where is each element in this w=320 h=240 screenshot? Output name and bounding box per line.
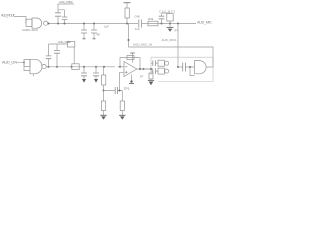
wire	[14, 17, 26, 24]
node	[189, 66, 191, 68]
connector J1 pin box	[26, 19, 32, 26]
stub end	[93, 38, 96, 40]
mic series cap wire	[178, 66, 195, 68]
node on bias wire	[128, 39, 130, 41]
series cap plates	[115, 87, 117, 94]
rail to ground	[150, 79, 152, 80]
connector J2 tip circle	[42, 64, 46, 68]
value label	[135, 15, 141, 19]
node	[57, 23, 59, 25]
connector J2 body	[30, 59, 42, 74]
node	[83, 23, 85, 25]
wire	[118, 66, 124, 68]
capacitor C45 plates	[81, 30, 87, 33]
svg-text:R?: R?	[140, 75, 144, 79]
capacitor C50 plates	[159, 16, 165, 19]
node	[23, 61, 25, 63]
node	[71, 66, 73, 68]
mic gate body	[195, 61, 207, 74]
resistor R57	[121, 91, 123, 102]
node	[139, 68, 141, 70]
op-amp input marks	[125, 67, 127, 74]
capacitor C46	[93, 24, 95, 39]
node	[103, 90, 105, 92]
connector J1 body	[32, 18, 42, 28]
node	[143, 68, 145, 70]
net label	[59, 0, 73, 4]
top rail	[162, 12, 171, 15]
feedback resistor box	[127, 56, 134, 60]
node	[130, 80, 132, 82]
node	[161, 23, 163, 25]
ground	[103, 111, 105, 116]
node	[64, 23, 66, 25]
node	[119, 66, 121, 68]
mic cap plates	[183, 63, 186, 72]
capacitor C45	[83, 24, 85, 39]
svg-text:AUD_LIN: AUD_LIN	[2, 59, 17, 64]
wire stub	[58, 10, 65, 24]
wire row1 right	[160, 23, 196, 25]
label MIC_BIAS	[162, 38, 177, 42]
opamp plus input stub	[120, 72, 125, 90]
net label AUD_RIN	[2, 59, 17, 64]
capacitor C50	[161, 13, 163, 24]
value label	[175, 29, 179, 33]
node	[177, 23, 179, 25]
branch up row2	[49, 44, 68, 67]
connector J2 pin box	[24, 60, 30, 67]
capacitor C44 plates	[55, 13, 61, 16]
resistor R55	[103, 67, 105, 75]
resistor R56	[103, 91, 105, 102]
stub	[32, 74, 34, 77]
wire bias horizontal	[129, 24, 214, 58]
net label AUD_MIC	[197, 20, 212, 24]
jack row A wire	[151, 62, 158, 64]
resistor R55 box	[102, 75, 106, 85]
TP label	[124, 87, 130, 91]
wire	[169, 21, 171, 24]
cap plates	[93, 73, 99, 76]
wire	[73, 47, 75, 64]
node	[119, 90, 121, 92]
value label	[22, 28, 38, 32]
wire mic branch vertical	[177, 24, 179, 68]
jack row B circle	[165, 69, 169, 73]
wire	[17, 62, 24, 66]
node	[83, 66, 85, 68]
value label	[148, 17, 154, 21]
svg-text:AUD_MIC: AUD_MIC	[197, 20, 212, 24]
bottom wire	[104, 90, 123, 92]
opamp power up	[132, 53, 134, 62]
node	[93, 23, 95, 25]
svg-text:AUD_VREF: AUD_VREF	[59, 0, 73, 4]
node	[48, 23, 50, 25]
svg-text:C48: C48	[135, 15, 141, 19]
svg-text:AUD_ROUT: AUD_ROUT	[1, 14, 16, 18]
node	[169, 23, 171, 25]
resistor R49 box (series)	[148, 21, 158, 26]
ground	[169, 24, 171, 28]
cap plates	[46, 56, 52, 59]
jack row A cap plates	[153, 60, 156, 66]
stub end	[83, 38, 86, 40]
svg-text:AUDIO JACK: AUDIO JACK	[22, 28, 38, 32]
capacitor C54	[95, 67, 97, 79]
label R	[140, 75, 144, 79]
resistor R51 box	[167, 14, 173, 22]
wire into jack	[144, 68, 152, 70]
op-amp U1	[124, 62, 137, 77]
wire	[103, 85, 105, 91]
wire row1 main	[48, 23, 138, 25]
wire branch up	[58, 4, 74, 24]
svg-text:1uF: 1uF	[135, 27, 140, 31]
ground arrow	[94, 79, 98, 83]
svg-text:R49: R49	[148, 17, 154, 21]
svg-text:AUD_MIC_IN: AUD_MIC_IN	[133, 43, 152, 47]
resistor R57 box	[120, 101, 124, 111]
node	[56, 66, 58, 68]
jack row B box	[158, 68, 164, 74]
capacitor C53	[83, 67, 85, 79]
net label AUD_ROUT	[1, 14, 16, 18]
connector J1 tip circle	[44, 21, 48, 25]
node	[48, 66, 50, 68]
svg-text:C52 R53: C52 R53	[159, 9, 175, 13]
ferrite box	[68, 41, 75, 47]
value label	[104, 24, 109, 28]
capacitor branch	[48, 44, 50, 67]
svg-text:1uF: 1uF	[104, 24, 109, 28]
jack row B wire	[151, 70, 158, 72]
node	[150, 68, 152, 70]
resistor R56 box	[101, 101, 105, 111]
wire row2 main	[46, 66, 115, 68]
wire	[142, 23, 160, 25]
jack row A box	[158, 60, 164, 66]
node	[103, 66, 105, 68]
cap plates	[54, 50, 60, 53]
net label	[58, 40, 71, 44]
node	[95, 66, 97, 68]
resistor R47	[126, 3, 128, 24]
feedback loop	[120, 58, 140, 69]
capacitor C46 plates	[91, 30, 97, 33]
capacitor plates	[62, 17, 68, 20]
value label	[97, 33, 101, 37]
svg-text:AUD_MIC1: AUD_MIC1	[162, 38, 177, 42]
jack row B cap plates	[153, 68, 156, 74]
jack enclosure box	[151, 57, 213, 81]
resistor R52 box (series)	[72, 64, 79, 70]
cap plates	[81, 73, 87, 76]
output wire	[206, 57, 213, 67]
svg-text:AUD_VREF: AUD_VREF	[58, 40, 71, 44]
value label	[159, 9, 175, 13]
jack row A circle	[165, 61, 169, 65]
capacitor C48 plates (series)	[139, 20, 142, 28]
wire L to lower pin	[190, 67, 195, 76]
ground arrow	[82, 79, 86, 83]
resistor R47 box	[125, 8, 129, 18]
opamp power down	[131, 74, 133, 81]
resistor on rail	[150, 73, 152, 75]
node	[126, 23, 128, 25]
ground tick	[129, 83, 134, 85]
svg-text:48: 48	[97, 33, 101, 37]
svg-text:TP1: TP1	[124, 87, 130, 91]
output wire	[137, 68, 151, 70]
wire L below	[24, 67, 30, 71]
power rail tick	[124, 2, 131, 4]
ground	[121, 111, 123, 116]
value label	[135, 27, 140, 31]
node	[177, 66, 179, 68]
label	[133, 43, 152, 47]
